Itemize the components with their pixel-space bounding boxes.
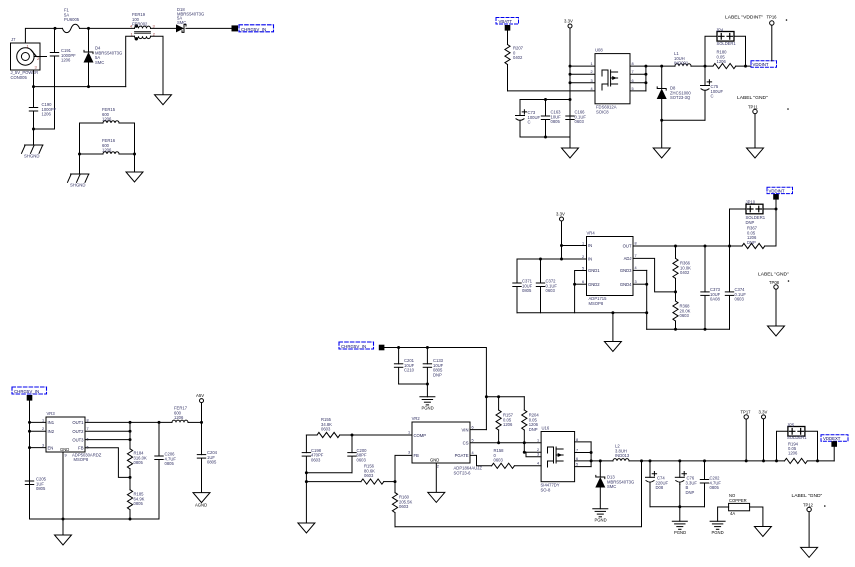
- inductor L1: [674, 51, 691, 66]
- wire U16 drain tie: [590, 442, 592, 467]
- svg-text:3: 3: [591, 79, 593, 83]
- wire VR3 IN2 lead: [30, 430, 47, 432]
- node COMP C200: [351, 434, 354, 437]
- svg-text:0805: 0805: [134, 460, 144, 465]
- wire J7 pin3 down: [33, 70, 35, 87]
- node VBATT flag pin: [505, 25, 511, 31]
- svg-text:GND3: GND3: [620, 268, 632, 273]
- power terminal 3.3V top-right: [564, 19, 573, 29]
- node C163 bottom: [544, 136, 547, 139]
- wire VR4 OUT rail: [633, 245, 742, 247]
- pin numbers VR4: [582, 242, 637, 285]
- pin numbers U08 left: [591, 62, 593, 91]
- svg-text:MSOP8: MSOP8: [589, 301, 604, 306]
- svg-text:5: 5: [472, 438, 474, 442]
- ground PGND outcaps: [672, 521, 687, 535]
- node GND2 tie: [573, 283, 576, 286]
- node C74 top: [649, 459, 652, 462]
- wire to PGND caps: [569, 137, 571, 148]
- pin numbers VR2: [408, 425, 474, 468]
- wire C198 C200 bottom: [306, 472, 352, 474]
- svg-text:1206: 1206: [61, 58, 71, 63]
- node GND rail: [62, 518, 65, 521]
- svg-text:IN1: IN1: [48, 420, 55, 425]
- node drain exit: [644, 65, 647, 68]
- svg-text:8: 8: [632, 62, 634, 66]
- node FER16 left: [78, 153, 81, 156]
- ground SHGND input: [22, 145, 44, 159]
- wire input cap rail top: [520, 99, 570, 101]
- svg-text:GND4: GND4: [620, 282, 632, 287]
- wire to PGND outcaps: [679, 507, 681, 522]
- svg-text:IND001: IND001: [674, 61, 689, 66]
- wire net tie right: [750, 507, 763, 527]
- wire C190 bottom to C191 bottom: [34, 128, 55, 130]
- wire to SHGND: [33, 129, 35, 145]
- wire J7 pin1 to top rail: [25, 28, 55, 43]
- wire VR3 IN1 lead: [30, 421, 47, 423]
- node VDDINT flag pin mid: [773, 194, 779, 200]
- node CHRG5V_IN flag pin buck: [379, 345, 385, 351]
- node pin1 tie: [569, 65, 572, 68]
- net label CHRG5V_IN: [239, 25, 274, 32]
- wire U08 pin5 lead: [630, 90, 646, 92]
- svg-text:0805: 0805: [522, 288, 532, 293]
- svg-text:PGND: PGND: [595, 518, 607, 523]
- svg-text:0603: 0603: [311, 457, 321, 462]
- resistor R157: [496, 397, 514, 443]
- capacitor C373: [701, 246, 721, 329]
- node cap rail tie: [569, 98, 572, 101]
- svg-text:MSOP8: MSOP8: [74, 457, 89, 462]
- node C191 top: [54, 27, 57, 30]
- node shield: [32, 128, 35, 131]
- svg-text:3.3V: 3.3V: [556, 212, 565, 217]
- svg-text:GND: GND: [430, 458, 439, 463]
- node drain tie 7: [644, 73, 647, 76]
- wire output rail: [629, 460, 785, 462]
- node D8 top: [660, 65, 663, 68]
- wire VR4 GND1 lead: [575, 271, 587, 313]
- svg-text:2: 2: [537, 448, 539, 452]
- capacitor C201: [394, 348, 414, 385]
- node OUT tie3: [129, 438, 132, 441]
- svg-text:0402: 0402: [513, 55, 523, 60]
- wire U16 pin6 lead: [575, 460, 592, 462]
- wire FER19 pin3 to D18: [151, 27, 177, 29]
- ground PGND D13: [593, 509, 608, 523]
- svg-text:SMC: SMC: [607, 484, 616, 489]
- svg-text:7: 7: [632, 70, 634, 74]
- node C202 top: [703, 459, 706, 462]
- wire PGATE jog: [470, 455, 492, 465]
- capacitor C205: [25, 477, 46, 492]
- svg-text:7: 7: [87, 427, 89, 431]
- ground GND TP12: [801, 547, 818, 557]
- wire D8 C75 bottom rail: [662, 119, 705, 121]
- svg-text:TP16: TP16: [767, 15, 778, 20]
- svg-text:0805: 0805: [134, 501, 144, 506]
- svg-text:IN2: IN2: [48, 429, 55, 434]
- svg-text:TP12: TP12: [803, 503, 814, 508]
- wire U16 pin8 lead: [575, 441, 592, 443]
- svg-text:4: 4: [591, 87, 593, 91]
- wire U16 pin2 lead: [524, 451, 541, 453]
- node JP10 right: [775, 208, 778, 211]
- ground PGND caps: [562, 148, 579, 158]
- node C75 top: [704, 65, 707, 68]
- wire FER19 pin2 down to ground: [151, 36, 164, 94]
- svg-text:0603: 0603: [494, 458, 504, 463]
- wire U08 pin8 lead: [630, 65, 646, 67]
- op-amp VR2 ADP1864: [412, 416, 483, 476]
- wire bottom rail: [34, 86, 126, 88]
- svg-text:5: 5: [582, 267, 584, 271]
- capacitor C374: [725, 246, 746, 329]
- svg-text:1206: 1206: [788, 451, 798, 456]
- svg-text:3: 3: [408, 451, 410, 455]
- svg-text:IND013: IND013: [615, 453, 630, 458]
- node R194 right: [816, 459, 819, 462]
- op-amp VR4 LDO ADP1715: [587, 231, 634, 306]
- node C76 top: [678, 459, 681, 462]
- wire U08 pin7 lead: [630, 73, 646, 75]
- wire VIN lead: [470, 429, 486, 431]
- svg-text:PGND: PGND: [422, 406, 434, 411]
- capacitor C372: [536, 259, 557, 313]
- svg-text:LABEL "VDDINT": LABEL "VDDINT": [725, 15, 763, 21]
- svg-text:GND2: GND2: [588, 282, 600, 287]
- node pin3 tie: [569, 81, 572, 84]
- wire VDDINT riser: [775, 200, 777, 247]
- svg-text:3: 3: [635, 280, 637, 284]
- svg-text:7: 7: [576, 449, 578, 453]
- wire VR4 GND3 lead: [633, 269, 647, 271]
- svg-text:EN: EN: [48, 445, 54, 450]
- svg-text:CHRG5V_IN: CHRG5V_IN: [241, 27, 266, 32]
- ground PGND TP11: [747, 148, 764, 158]
- node IN1 tie: [28, 421, 31, 424]
- svg-text:0603: 0603: [364, 473, 374, 478]
- svg-text:1206: 1206: [42, 112, 52, 117]
- svg-text:8: 8: [576, 438, 578, 442]
- node CHRG5V_IN flag pin: [232, 25, 239, 31]
- wire input caps bottom: [399, 383, 428, 385]
- svg-text:JP4: JP4: [716, 28, 724, 33]
- resistor R155: [306, 417, 352, 438]
- svg-text:0805: 0805: [165, 461, 175, 466]
- svg-text:4: 4: [472, 451, 474, 455]
- svg-text:1206: 1206: [102, 148, 112, 153]
- svg-text:OUT2: OUT2: [72, 429, 84, 434]
- capacitor C191: [50, 28, 76, 129]
- wire U08 drain tie vertical: [645, 66, 647, 91]
- svg-text:FB: FB: [414, 453, 420, 458]
- wire U16 pin5 lead: [575, 466, 592, 468]
- wire FER right vertical: [134, 123, 136, 172]
- svg-text:OUT3: OUT3: [72, 437, 84, 442]
- svg-text:LABEL "GND": LABEL "GND": [758, 272, 789, 278]
- wire VR4 pin2 rail: [517, 258, 587, 260]
- svg-text:VBATT: VBATT: [499, 19, 513, 24]
- svg-text:CHRG5V_IN: CHRG5V_IN: [14, 389, 39, 394]
- resistor R158: [492, 448, 541, 468]
- wire LDO left bottom rail: [517, 312, 647, 314]
- ground SHGND FER: [68, 174, 90, 188]
- svg-text:SOT23-3Q: SOT23-3Q: [670, 95, 691, 100]
- svg-text:A5V: A5V: [196, 393, 204, 398]
- svg-text:VIN: VIN: [462, 427, 469, 432]
- wire U08 pin6 lead: [630, 82, 646, 84]
- wire top rail C191 to fuse: [55, 27, 62, 29]
- ground AGND: [193, 493, 210, 508]
- transformer FER19 common mode choke: [132, 12, 151, 41]
- wire VDDEXT riser: [833, 447, 835, 461]
- svg-text:8: 8: [635, 242, 637, 246]
- svg-text:VDDINT: VDDINT: [753, 62, 769, 67]
- svg-text:PGND: PGND: [712, 530, 724, 535]
- ground PGND LDO: [604, 342, 621, 352]
- svg-text:SMC: SMC: [177, 20, 186, 25]
- diode D18: [176, 7, 204, 32]
- svg-text:U08: U08: [595, 48, 603, 53]
- wire fuse to D4 node: [80, 27, 135, 29]
- wire L1 to R180: [691, 65, 713, 67]
- svg-text:0A08: 0A08: [710, 297, 720, 302]
- ground PGND TP08: [768, 326, 785, 336]
- resistor R367: [742, 226, 776, 249]
- svg-text:2: 2: [437, 465, 439, 469]
- svg-text:0603: 0603: [357, 457, 367, 462]
- svg-text:SHGND: SHGND: [24, 154, 40, 159]
- wire input vertical LDO3: [29, 401, 31, 519]
- test point TP12 with ground: [792, 493, 826, 547]
- svg-text:SO-8: SO-8: [541, 487, 551, 492]
- svg-text:IN: IN: [588, 257, 592, 262]
- svg-text:VDDINT: VDDINT: [769, 188, 785, 193]
- wire J7 pin2 stub: [34, 56, 47, 58]
- diode D4: [84, 28, 123, 86]
- ground PGND net tie: [710, 521, 725, 535]
- node ground branch: [660, 119, 663, 122]
- svg-text:DNP: DNP: [433, 372, 442, 377]
- svg-text:3.3V: 3.3V: [564, 19, 573, 24]
- wire OUT tie vertical: [129, 422, 131, 448]
- capacitor C200: [348, 435, 367, 473]
- node OUT rail R366: [674, 245, 677, 248]
- node sense top: [485, 395, 488, 398]
- svg-text:AGND: AGND: [195, 503, 207, 508]
- capacitor C163: [541, 100, 561, 138]
- wire VR3 OUT3 lead: [85, 439, 130, 441]
- capacitor C204: [197, 422, 217, 492]
- node R204 cross: [523, 441, 526, 444]
- svg-text:GND1: GND1: [588, 268, 600, 273]
- capacitor C76: [675, 461, 697, 507]
- node C373 bottom: [704, 328, 707, 331]
- resistor R180: [713, 50, 751, 69]
- svg-text:OUT1: OUT1: [72, 420, 84, 425]
- ground PGND FER: [126, 172, 143, 182]
- svg-text:1: 1: [537, 439, 539, 443]
- capacitor C166: [566, 100, 587, 138]
- resistor R366: [673, 246, 691, 292]
- net label VDDINT wire flag: [751, 61, 777, 67]
- svg-text:0805: 0805: [207, 460, 217, 465]
- node OUT tie1: [129, 421, 132, 424]
- node 3.3V join: [560, 258, 563, 261]
- svg-text:9: 9: [65, 454, 67, 458]
- svg-text:0603: 0603: [735, 297, 745, 302]
- svg-text:4A: 4A: [730, 511, 735, 516]
- svg-text:1: 1: [582, 242, 584, 246]
- svg-text:C210: C210: [404, 368, 415, 373]
- svg-text:PU6005: PU6005: [64, 17, 80, 22]
- svg-text:U16: U16: [542, 426, 550, 431]
- node left rail join: [645, 311, 648, 314]
- svg-text:1206: 1206: [174, 415, 184, 420]
- op-amp U08 MOSFET IC: [595, 48, 630, 115]
- net label VBATT: [496, 18, 519, 25]
- capacitor C190: [29, 87, 56, 129]
- test point TP17: [741, 410, 752, 463]
- svg-text:3: 3: [42, 444, 44, 448]
- svg-text:FB: FB: [78, 445, 84, 450]
- svg-text:8: 8: [87, 418, 89, 422]
- svg-text:ADJ: ADJ: [624, 256, 632, 261]
- wire VR3 EN lead: [30, 447, 47, 449]
- ground PGND LDO3: [55, 535, 72, 545]
- wire GND34 tie vertical: [646, 270, 648, 329]
- svg-text:3.3V: 3.3V: [759, 410, 768, 415]
- wire to PGND caps buck: [426, 384, 428, 397]
- net label CHRG5V_IN LDO3: [12, 387, 47, 394]
- svg-text:7: 7: [635, 254, 637, 258]
- svg-text:0805: 0805: [36, 486, 46, 491]
- wire COMP lead: [352, 434, 412, 436]
- svg-text:0603: 0603: [321, 427, 331, 432]
- wire U16 pin3 jog: [526, 452, 541, 457]
- svg-text:JP10: JP10: [746, 200, 756, 205]
- svg-text:TP11: TP11: [748, 105, 758, 110]
- wire buck input rail: [384, 348, 486, 430]
- wire switch node to L2: [591, 460, 613, 462]
- node ADJ divider: [674, 290, 677, 293]
- inductor L2: [613, 444, 630, 461]
- resistor R368: [673, 292, 691, 329]
- svg-text:GND: GND: [60, 447, 69, 452]
- jumper JP10: [730, 200, 777, 247]
- svg-text:D08: D08: [656, 485, 664, 490]
- svg-text:6: 6: [472, 425, 474, 429]
- node FB net: [394, 480, 397, 483]
- wire VR4 GND4 lead: [633, 283, 647, 285]
- svg-text:1206: 1206: [503, 422, 513, 427]
- svg-text:2: 2: [591, 70, 593, 74]
- diode D13: [595, 461, 634, 509]
- svg-text:CON005: CON005: [11, 75, 28, 80]
- node caps gnd: [426, 383, 429, 386]
- node VR4 pin1: [560, 244, 563, 247]
- svg-text:J7: J7: [11, 37, 16, 42]
- ground PGND D8: [653, 148, 670, 158]
- svg-text:SHGND: SHGND: [70, 183, 86, 188]
- wire gate row to U08 pin4: [508, 90, 596, 92]
- wire comp gnd down: [305, 482, 307, 523]
- svg-text:SOIC8: SOIC8: [596, 109, 609, 114]
- node bottom rail left: [32, 85, 35, 88]
- svg-text:TP08: TP08: [769, 280, 780, 285]
- node R185 bottom: [129, 518, 132, 521]
- svg-text:SMC: SMC: [95, 60, 104, 65]
- svg-text:0805: 0805: [710, 485, 720, 490]
- transistor U16 PMOS: [541, 426, 575, 493]
- test point TP16: [725, 15, 787, 61]
- svg-text:1: 1: [408, 431, 410, 435]
- svg-text:JP5: JP5: [787, 423, 795, 428]
- node FER16 right: [133, 153, 136, 156]
- wire sense top rail: [486, 396, 524, 398]
- wire D18 to label: [186, 27, 232, 29]
- svg-text:0603: 0603: [575, 119, 585, 124]
- capacitor C198: [302, 435, 324, 482]
- svg-text:4: 4: [635, 266, 637, 270]
- svg-text:TP17: TP17: [741, 410, 752, 415]
- svg-text:DNP: DNP: [747, 240, 756, 245]
- node EN tie: [28, 446, 31, 449]
- node C163 top: [544, 98, 547, 101]
- fuse F1: [62, 8, 79, 33]
- svg-text:6: 6: [632, 79, 634, 83]
- node C133 top: [426, 346, 429, 349]
- wire VR2 GND down: [435, 463, 437, 492]
- ferrite FER15: [80, 107, 135, 123]
- resistor R160: [392, 482, 412, 527]
- wire FER left vertical: [79, 123, 81, 173]
- resistor R184: [127, 448, 147, 477]
- node C373 top: [704, 245, 707, 248]
- node OUT tie2: [129, 430, 132, 433]
- ground PGND FER19: [155, 95, 172, 105]
- jumper JP4: [705, 28, 746, 67]
- resistor R194: [785, 441, 808, 463]
- node drain tie6: [590, 459, 593, 462]
- svg-text:SOLDER1: SOLDER1: [787, 435, 807, 440]
- node pin2 tie: [569, 73, 572, 76]
- resistor R156: [306, 464, 394, 485]
- ground PGND input caps: [420, 397, 435, 411]
- svg-text:0603: 0603: [680, 313, 690, 318]
- wire net tie left: [718, 507, 729, 521]
- wire 3.3V to IN pins: [561, 221, 563, 259]
- node comp gnd: [305, 471, 308, 474]
- node D13 top: [599, 459, 602, 462]
- wire to PGND LDO: [612, 313, 614, 342]
- node VDDEXT flag pin: [831, 441, 837, 447]
- wire VR3 FB lead: [85, 448, 130, 478]
- wire U08 pin3 lead: [570, 82, 595, 84]
- svg-text:PGND: PGND: [674, 530, 686, 535]
- wire FB sense bottom rail: [395, 461, 642, 527]
- net label CHRG5V_IN buck: [339, 342, 374, 349]
- node C201 top: [397, 346, 400, 349]
- wire CS row: [470, 442, 541, 444]
- svg-text:IN: IN: [588, 243, 592, 248]
- node out gnd: [678, 505, 681, 508]
- net label VDDINT mid: [767, 187, 793, 193]
- wire 3.3V vertical: [569, 28, 571, 137]
- svg-text:SOLDER1: SOLDER1: [717, 41, 737, 46]
